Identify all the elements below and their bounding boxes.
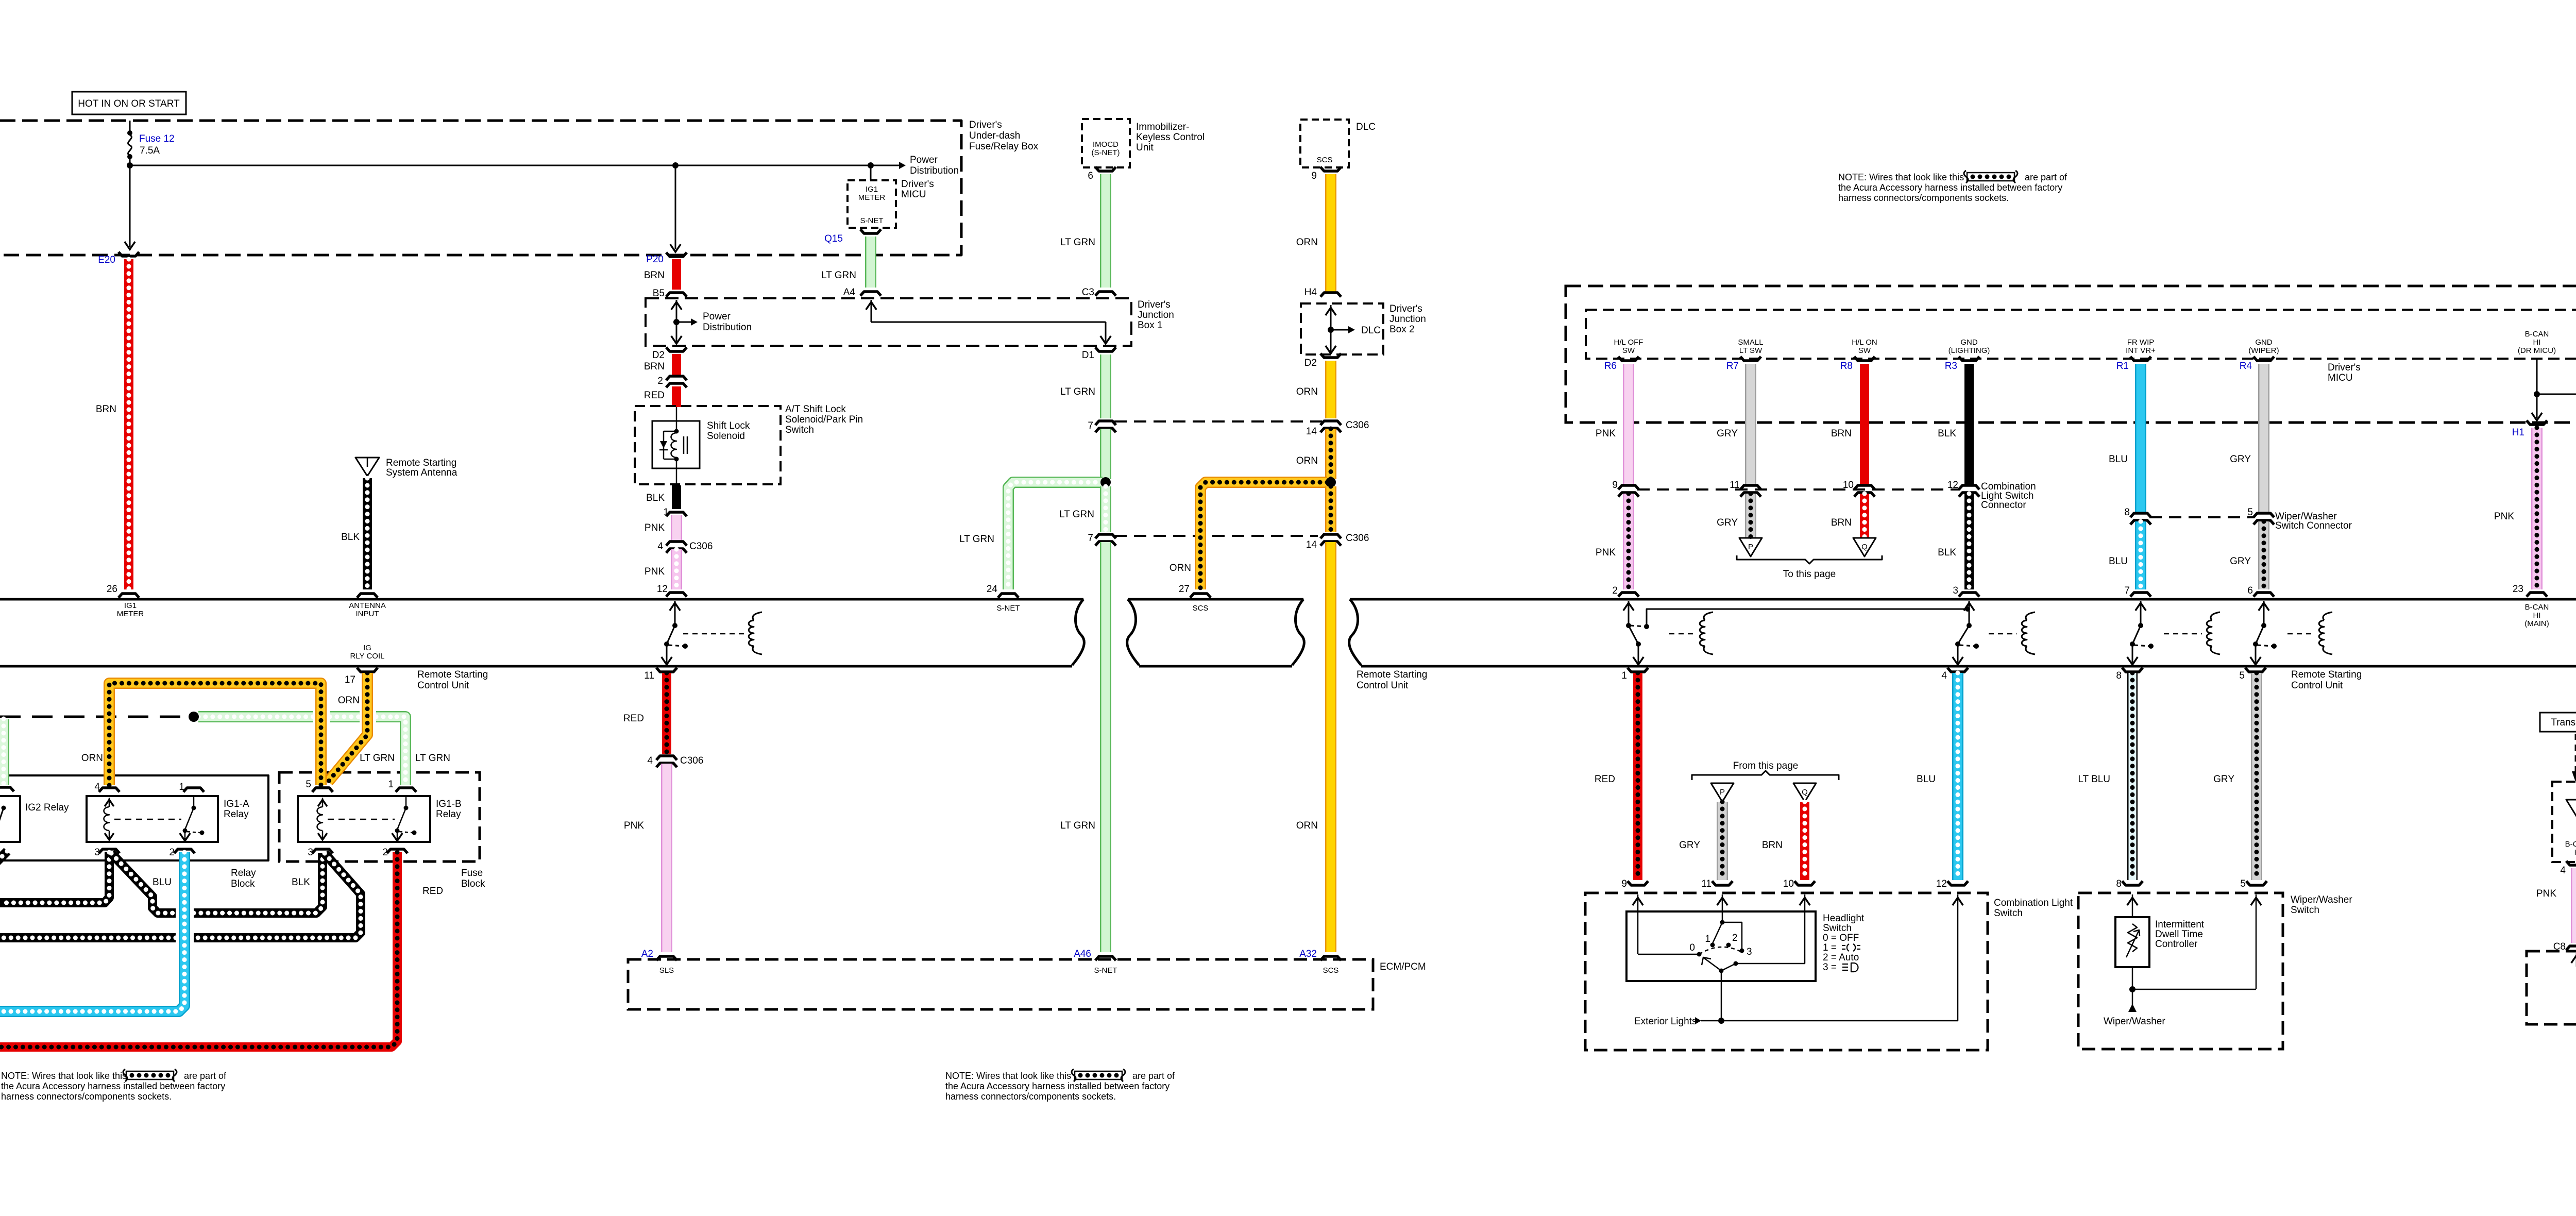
svg-text:BLK: BLK: [1938, 428, 1956, 439]
svg-text:P20: P20: [646, 254, 664, 265]
svg-text:C306: C306: [1346, 533, 1369, 544]
svg-text:14: 14: [1306, 426, 1317, 437]
svg-text:Distribution: Distribution: [910, 165, 959, 176]
svg-text:SMALL: SMALL: [1738, 338, 1763, 347]
box Driver's Under-dash Fuse/Relay Box (top left, dashed): [0, 121, 961, 255]
svg-text:11: 11: [1730, 480, 1740, 491]
svg-text:R8: R8: [1840, 361, 1853, 371]
wire RED band pin1 to 9: [1633, 673, 1642, 880]
svg-text:1: 1: [1621, 670, 1627, 681]
box Driver's Junction Box 1 (dashed): [646, 298, 1131, 346]
svg-text:BLU: BLU: [1917, 774, 1936, 785]
svg-text:METER: METER: [858, 193, 886, 202]
connector pin 8 band bottom: [2122, 668, 2143, 672]
svg-text:3: 3: [1747, 947, 1752, 957]
svg-text:From this page: From this page: [1733, 761, 1799, 771]
svg-text:1: 1: [388, 779, 394, 790]
junction dot ORN SCS branch: [1326, 477, 1336, 487]
triangle P to this page: [1739, 538, 1762, 556]
svg-text:LT GRN: LT GRN: [1059, 509, 1094, 520]
antenna Remote Starting System Antenna: [355, 458, 379, 476]
svg-text:R7: R7: [1726, 361, 1739, 371]
box Remote Starting Control Unit band (top/bottom lines): [0, 598, 1083, 601]
coil G3 in band: [2026, 612, 2035, 620]
svg-text:the Acura Accessory harness in: the Acura Accessory harness installed be…: [945, 1081, 1170, 1091]
svg-text:Immobilizer-: Immobilizer-: [1136, 122, 1189, 132]
svg-text:A2: A2: [641, 949, 653, 959]
svg-text:Solenoid/Park Pin: Solenoid/Park Pin: [785, 414, 863, 425]
svg-text:Fuse 12: Fuse 12: [139, 133, 175, 144]
wire ORN U-shape pin4 to pin5: [109, 683, 321, 785]
wire BRN dotted to Q triangle: [1860, 494, 1869, 538]
wire GRY dotted to P triangle: [1745, 494, 1756, 538]
headlight switch internals: [1637, 894, 1639, 954]
svg-text:GRY: GRY: [1717, 428, 1738, 439]
svg-text:Remote Starting: Remote Starting: [2291, 669, 2362, 680]
svg-text:BLK: BLK: [341, 532, 360, 543]
wire BRN R8: [1860, 364, 1869, 484]
svg-text:RED: RED: [644, 390, 665, 401]
svg-text:B-CAN: B-CAN: [2525, 603, 2549, 612]
wire ORN dotted branch to pin 27: [1200, 482, 1327, 589]
svg-text:0 = OFF: 0 = OFF: [1823, 933, 1859, 943]
svg-text:BRN: BRN: [1831, 428, 1852, 439]
connector pin 5 band bottom: [2245, 668, 2266, 672]
svg-text:ORN: ORN: [1296, 237, 1318, 248]
brace To this page: [1737, 555, 1882, 564]
switch G4 in band: [2140, 601, 2142, 626]
svg-text:Driver's: Driver's: [969, 120, 1002, 130]
svg-text:ANTENNA: ANTENNA: [349, 601, 386, 610]
svg-text:6: 6: [1088, 171, 1093, 181]
svg-text:RED: RED: [1595, 774, 1615, 785]
wire BLK IG1-A pin3 left branch: [0, 852, 109, 903]
wire BRN D2: [672, 354, 681, 376]
wire ORN 9 to H4: [1325, 174, 1336, 292]
wire LT GRN dotted branch to pin 24: [1008, 482, 1103, 589]
svg-text:Junction: Junction: [1389, 314, 1426, 325]
svg-text:SLS: SLS: [659, 966, 674, 975]
svg-text:Control Unit: Control Unit: [2291, 680, 2343, 691]
svg-text:Remote Starting: Remote Starting: [417, 669, 488, 680]
svg-text:A/T Shift Lock: A/T Shift Lock: [785, 404, 846, 415]
svg-text:LT GRN: LT GRN: [1060, 237, 1095, 248]
svg-text:Dwell Time: Dwell Time: [2155, 929, 2203, 940]
svg-text:Relay: Relay: [224, 809, 249, 820]
connector pin 1 band bottom: [1628, 668, 1648, 672]
wire B5 through box: [676, 300, 677, 342]
svg-text:LT BLU: LT BLU: [2078, 774, 2110, 785]
wire to IG1 METER: [868, 162, 874, 168]
wire BLU IG1-A pin2: [176, 906, 193, 945]
wire RED to shift lock box: [672, 386, 681, 407]
svg-text:HI: HI: [2533, 338, 2541, 347]
svg-text:harness connectors/components: harness connectors/components sockets.: [1, 1091, 172, 1102]
wire PNK dotted to pin 12: [671, 549, 682, 589]
IG1-A switch: [193, 796, 195, 808]
box IMOCD (S-NET): [1082, 119, 1130, 167]
box ECM/PCM: [628, 959, 1373, 1009]
svg-text:ORN: ORN: [338, 695, 360, 706]
wire DLC link inside box 2: [1330, 305, 1332, 352]
svg-text:P: P: [1748, 543, 1753, 551]
svg-text:S-NET: S-NET: [860, 216, 884, 225]
wire LT GRN Q15 to A4: [865, 237, 876, 288]
svg-text:26: 26: [107, 584, 117, 595]
svg-text:INPUT: INPUT: [356, 610, 379, 618]
box Intermittent Dwell Time Controller: [2132, 894, 2133, 917]
svg-text:Solenoid: Solenoid: [707, 431, 745, 442]
svg-text:Fuse: Fuse: [461, 868, 483, 879]
svg-text:LT GRN: LT GRN: [821, 270, 856, 281]
svg-text:the Acura Accessory harness in: the Acura Accessory harness installed be…: [1, 1081, 225, 1091]
svg-text:9: 9: [1612, 480, 1618, 491]
svg-text:12: 12: [657, 584, 668, 595]
svg-text:BLU: BLU: [2109, 454, 2128, 465]
svg-text:Relay: Relay: [231, 868, 256, 879]
svg-text:IG: IG: [363, 644, 371, 652]
svg-text:D1: D1: [1082, 350, 1094, 361]
svg-text:LT SW: LT SW: [1739, 346, 1762, 355]
svg-text:10: 10: [1783, 879, 1794, 889]
svg-text:C8: C8: [2553, 941, 2566, 952]
svg-text:E20: E20: [98, 255, 115, 265]
wire RED pin 11 to C306: [662, 673, 671, 754]
wire PNK dotted R6 to pin 2: [1623, 494, 1634, 589]
svg-text:IMOCD: IMOCD: [1093, 140, 1118, 149]
band segment 2: [1127, 599, 1139, 665]
svg-text:HI: HI: [2533, 611, 2541, 620]
svg-text:BLK: BLK: [292, 877, 310, 888]
svg-text:ORN: ORN: [1296, 820, 1318, 831]
svg-text:2 = Auto: 2 = Auto: [1823, 952, 1859, 963]
svg-text:IG1-A: IG1-A: [224, 799, 249, 809]
connector pin 4 band bottom: [1947, 668, 1968, 672]
svg-text:H: H: [2574, 848, 2576, 857]
svg-text:PNK: PNK: [645, 522, 665, 533]
svg-text:PNK: PNK: [1596, 428, 1616, 439]
box Combination Light Switch: [1585, 893, 1988, 1050]
svg-text:System Antenna: System Antenna: [386, 467, 457, 478]
svg-text:A46: A46: [1074, 949, 1091, 959]
variable resistor symbol: [2128, 924, 2137, 952]
svg-text:11: 11: [1701, 879, 1711, 889]
svg-text:H/L OFF: H/L OFF: [1614, 338, 1643, 347]
svg-text:5: 5: [2247, 507, 2253, 518]
svg-text:IG1: IG1: [124, 601, 137, 610]
wire BRN P20-B5: [672, 259, 681, 290]
svg-text:Box 1: Box 1: [1138, 320, 1163, 331]
svg-text:SCS: SCS: [1317, 156, 1333, 164]
icon headlight: [1842, 963, 1858, 972]
svg-text:Switch: Switch: [1823, 923, 1852, 934]
svg-text:Shift Lock: Shift Lock: [707, 420, 750, 431]
svg-text:ORN: ORN: [81, 753, 103, 764]
svg-text:NOTE: Wires that look like thi: NOTE: Wires that look like this: [1, 1071, 127, 1081]
band segment 3: [1349, 599, 1361, 665]
svg-text:SCS: SCS: [1323, 966, 1339, 975]
svg-text:MICU: MICU: [901, 189, 926, 200]
svg-text:(WIPER): (WIPER): [2248, 346, 2279, 355]
svg-text:BRN: BRN: [96, 404, 116, 415]
svg-text:FR WIP: FR WIP: [2127, 338, 2155, 347]
svg-text:Q15: Q15: [824, 233, 843, 244]
svg-text:GRY: GRY: [2213, 774, 2234, 785]
svg-text:H1: H1: [2512, 427, 2524, 438]
svg-text:Power: Power: [910, 155, 938, 165]
svg-text:LT GRN: LT GRN: [415, 753, 450, 764]
svg-text:RED: RED: [623, 713, 644, 724]
svg-text:Control Unit: Control Unit: [417, 680, 469, 691]
svg-text:A32: A32: [1299, 949, 1317, 959]
svg-text:S-NET: S-NET: [997, 604, 1020, 613]
coil G2 in band: [1704, 612, 1713, 620]
coil G4 in band: [2211, 612, 2220, 620]
svg-text:2: 2: [1612, 585, 1618, 596]
svg-text:7: 7: [1088, 420, 1093, 431]
svg-text:4: 4: [2560, 865, 2566, 876]
svg-text:10: 10: [1843, 480, 1854, 491]
IG1-B coil: [322, 798, 324, 807]
wire ORN to A32: [1325, 542, 1336, 952]
svg-text:Switch Connector: Switch Connector: [2275, 520, 2352, 531]
svg-text:4: 4: [647, 755, 653, 766]
svg-text:(MAIN): (MAIN): [2524, 619, 2549, 628]
svg-text:8: 8: [2116, 879, 2122, 889]
wire LT GRN to junction: [1100, 429, 1111, 479]
svg-text:B-CAN: B-CAN: [2525, 330, 2549, 339]
wire LT GRN dotted to IG1-A pin 1: [198, 711, 313, 722]
svg-text:DLC: DLC: [1356, 122, 1376, 132]
wire BLU dotted R1 to pin 7: [2135, 521, 2146, 589]
svg-text:SW: SW: [1858, 346, 1871, 355]
svg-text:B5: B5: [653, 288, 665, 299]
svg-text:GRY: GRY: [2230, 556, 2251, 567]
box Driver's MICU inner: [1586, 310, 2576, 359]
svg-text:27: 27: [1179, 584, 1190, 595]
switch G5 in band: [2263, 601, 2265, 626]
svg-text:1: 1: [1705, 934, 1710, 944]
svg-text:Fuse/Relay Box: Fuse/Relay Box: [969, 141, 1039, 152]
box A/T Shift Lock Solenoid/Park Pin Switch (dashed): [635, 406, 781, 484]
svg-text:RLY COIL: RLY COIL: [350, 652, 385, 661]
svg-text:S-NET: S-NET: [1094, 966, 1117, 975]
svg-text:Switch: Switch: [2291, 905, 2319, 916]
svg-text:PNK: PNK: [2494, 511, 2514, 522]
wire dwell to wiper/washer: [2132, 967, 2133, 1005]
svg-text:2: 2: [1732, 933, 1738, 943]
svg-text:BLK: BLK: [646, 493, 665, 503]
svg-text:NOTE: Wires that look like thi: NOTE: Wires that look like this: [945, 1071, 1071, 1081]
svg-text:ORN: ORN: [1296, 455, 1318, 466]
wire BLK IG1-B pin3 lower branch: [194, 853, 361, 938]
svg-text:3: 3: [1953, 585, 1958, 596]
svg-text:LT GRN: LT GRN: [1060, 386, 1095, 397]
svg-text:BRN: BRN: [1762, 840, 1783, 851]
svg-text:IG1: IG1: [866, 185, 878, 194]
svg-text:SCS: SCS: [1193, 604, 1209, 613]
svg-text:Connector: Connector: [1981, 500, 2026, 511]
svg-text:(S-NET): (S-NET): [1092, 148, 1120, 157]
wire PNK pin1 to C306: [671, 515, 682, 541]
box Driver's Under-dash Fuse/Relay Box (middle, dashed): [1566, 286, 2576, 423]
svg-text:BRN: BRN: [644, 361, 665, 372]
wire GRY P to 11: [1717, 802, 1728, 880]
svg-text:PNK: PNK: [2536, 888, 2556, 899]
svg-text:C3: C3: [1082, 287, 1094, 298]
svg-text:4: 4: [1941, 670, 1947, 681]
svg-text:R1: R1: [2116, 361, 2129, 371]
wire ORN dotted below junction: [1325, 486, 1336, 532]
wire BLU band pin4 to 12: [1952, 673, 1963, 880]
wire B-CAN HI link: [2536, 360, 2538, 418]
wire ORN dotted to junction: [1325, 429, 1336, 479]
svg-text:Switch: Switch: [785, 425, 814, 435]
svg-text:Driver's: Driver's: [1389, 303, 1422, 314]
wire to P20 branch: [672, 162, 679, 168]
wire A4 to D1: [871, 300, 872, 322]
svg-text:Switch: Switch: [1994, 908, 2023, 919]
coil G5 in band: [2323, 612, 2332, 620]
svg-text:DLC: DLC: [1361, 325, 1381, 336]
in-band link wire G2-G3: [1647, 609, 1968, 627]
wire BLU R1: [2135, 364, 2146, 513]
relay IG2 (clipped): [0, 796, 20, 842]
triangle Q from this page: [1793, 783, 1816, 802]
svg-text:17: 17: [345, 674, 355, 685]
wire LT GRN dotted left to IG2: [0, 719, 9, 785]
svg-text:METER: METER: [117, 610, 144, 618]
svg-text:INT VR+: INT VR+: [2126, 346, 2156, 355]
svg-text:B-CAN: B-CAN: [2565, 840, 2576, 849]
wire ORN pin17 down and diagonal to IG1-B pin 5: [328, 673, 367, 782]
wire RED IG1-B pin2: [0, 852, 397, 1047]
box Driver's Junction Box 1 (bottom): [2527, 951, 2576, 1024]
box Shift Lock Solenoid: [652, 421, 700, 468]
wire LT GRN dotted below junction: [1100, 486, 1111, 532]
svg-text:0: 0: [1689, 942, 1695, 953]
wire BLK dotted R3 to pin 3: [1964, 494, 1974, 589]
svg-text:GRY: GRY: [2230, 454, 2251, 465]
wire BLK below solenoid: [672, 485, 681, 509]
svg-text:H/L ON: H/L ON: [1852, 338, 1877, 347]
svg-text:Junction: Junction: [1138, 310, 1174, 320]
svg-text:Keyless Control: Keyless Control: [1136, 132, 1205, 143]
svg-text:BRN: BRN: [644, 270, 665, 281]
svg-text:6: 6: [2247, 585, 2253, 596]
svg-text:harness connectors/components: harness connectors/components sockets.: [1838, 193, 2009, 203]
svg-text:14: 14: [1306, 539, 1317, 550]
svg-text:2: 2: [657, 376, 663, 386]
connector pin 11: [656, 668, 677, 672]
fuse Fuse 12 7.5A: [129, 121, 131, 132]
wire BRN E20 to pin 26 (red, white dots): [124, 259, 133, 589]
svg-text:Q: Q: [1802, 788, 1808, 797]
svg-text:7: 7: [1088, 533, 1093, 544]
triangle Q to this page: [1853, 538, 1876, 556]
svg-text:H4: H4: [1304, 287, 1317, 298]
svg-text:R4: R4: [2240, 361, 2252, 371]
connector 5 re-stamp: [312, 788, 333, 792]
IG1-B switch: [405, 796, 407, 808]
svg-text:8: 8: [2124, 507, 2130, 518]
switch G3 in band: [1969, 601, 1970, 626]
svg-text:(LIGHTING): (LIGHTING): [1948, 346, 1990, 355]
svg-text:GRY: GRY: [1717, 517, 1738, 528]
svg-text:GND: GND: [2255, 338, 2273, 347]
switch G2 in band: [1628, 601, 1630, 626]
svg-text:LT GRN: LT GRN: [1060, 820, 1095, 831]
box DLC top: [1300, 120, 1349, 167]
coil G1 in band: [753, 612, 762, 620]
svg-text:4: 4: [657, 541, 663, 552]
svg-text:ORN: ORN: [1296, 386, 1318, 397]
svg-text:are part of: are part of: [2025, 172, 2067, 182]
dashed link line: [0, 716, 190, 718]
svg-text:Transmitter: Transmitter: [2551, 717, 2576, 728]
svg-text:Driver's: Driver's: [901, 179, 934, 190]
svg-text:Wiper/Washer: Wiper/Washer: [2104, 1016, 2165, 1027]
svg-text:5: 5: [2239, 670, 2245, 681]
wire BRN Q to 10: [1800, 802, 1809, 880]
svg-text:Box 2: Box 2: [1389, 324, 1415, 335]
svg-text:IG2 Relay: IG2 Relay: [25, 802, 69, 813]
svg-text:LT GRN: LT GRN: [959, 534, 994, 545]
relay IG1-A: [87, 796, 218, 842]
svg-text:the Acura Accessory harness in: the Acura Accessory harness installed be…: [1838, 182, 2062, 193]
wire BLK antenna input: [363, 478, 372, 589]
svg-text:harness connectors/components: harness connectors/components sockets.: [945, 1091, 1116, 1102]
wire BLK IG1-A pin3 to IG1-B pin3: [111, 853, 176, 913]
svg-text:Wiper/Washer: Wiper/Washer: [2291, 894, 2352, 905]
svg-text:BRN: BRN: [1831, 517, 1852, 528]
svg-text:1 =: 1 =: [1823, 942, 1837, 953]
svg-text:D2: D2: [1304, 358, 1317, 368]
svg-text:Relay: Relay: [436, 809, 461, 820]
wire ORN D2 to C306: [1325, 361, 1336, 418]
svg-text:12: 12: [1936, 879, 1947, 889]
wire GRY R7: [1745, 364, 1756, 484]
svg-text:HOT IN ON OR START: HOT IN ON OR START: [78, 98, 180, 109]
wire LT GRN D1 down: [1100, 354, 1111, 418]
relay IG1-B: [298, 796, 430, 842]
box Immobilizer-Keyless Control Unit: [2552, 782, 2576, 862]
svg-text:MICU: MICU: [2328, 373, 2353, 383]
svg-text:Remote Starting: Remote Starting: [1357, 669, 1427, 680]
wire LT GRN to A46: [1100, 542, 1111, 952]
svg-text:C306: C306: [680, 755, 703, 766]
svg-text:BLK: BLK: [1938, 547, 1956, 558]
wire PNK dotted H1 to 23: [2531, 428, 2543, 589]
svg-text:C306: C306: [689, 541, 713, 552]
svg-text:Q: Q: [1861, 543, 1868, 551]
svg-text:PNK: PNK: [645, 566, 665, 577]
icon parking lights: [1842, 944, 1860, 951]
svg-text:SW: SW: [1622, 346, 1635, 355]
svg-text:PNK: PNK: [624, 820, 644, 831]
antenna symbol immobilizer: [2566, 800, 2576, 817]
svg-text:Power: Power: [703, 311, 731, 322]
svg-text:RED: RED: [422, 886, 443, 897]
box Fuse Block (dashed): [279, 772, 480, 862]
IG1-A coil: [109, 798, 110, 807]
box Relay Block: [0, 775, 268, 860]
wire fuse to E20 (vertical): [129, 165, 131, 247]
svg-text:Remote Starting: Remote Starting: [386, 458, 456, 468]
switch G1 in band: [674, 601, 676, 626]
svg-text:Exterior Lights: Exterior Lights: [1634, 1016, 1697, 1027]
svg-text:(DR MICU): (DR MICU): [2518, 346, 2556, 355]
